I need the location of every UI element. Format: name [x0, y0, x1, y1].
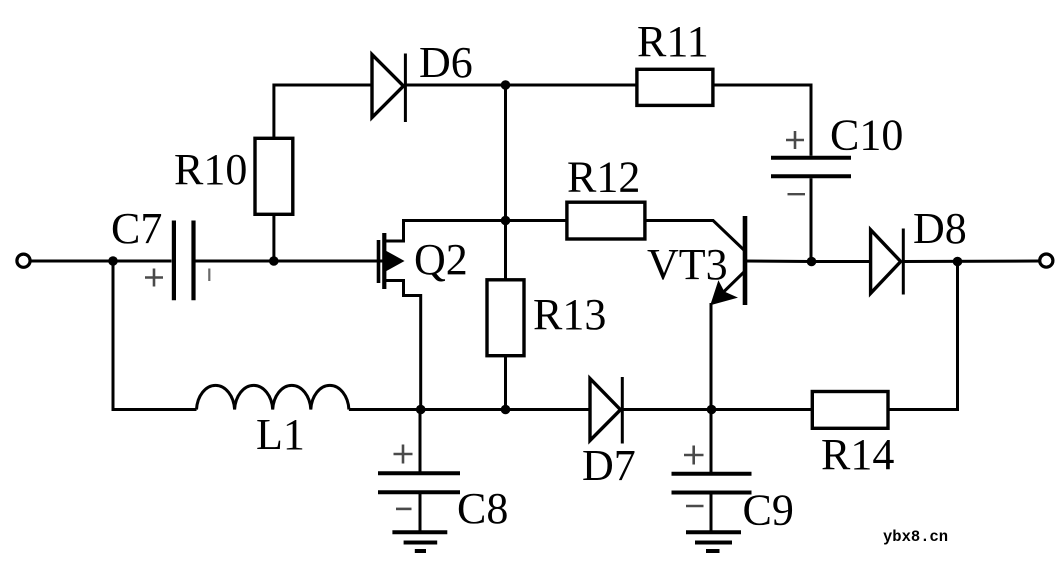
svg-text:R14: R14 [821, 430, 894, 479]
inductor L1 [197, 385, 349, 409]
wire D7 to R14 [622, 408, 812, 411]
capacitor C8 [378, 410, 460, 531]
diode D8 [871, 229, 904, 295]
wire node to R12 [506, 219, 567, 222]
mosfet Q2 [379, 221, 506, 410]
wire trunk vertical [504, 85, 507, 280]
node C8/Q2 source [416, 405, 426, 415]
resistor R13 [487, 280, 524, 356]
node VT3 emitter / C9 [707, 405, 717, 415]
node input/C7 [108, 256, 118, 266]
svg-text:VT3: VT3 [647, 240, 728, 289]
svg-text:ybx8.cn: ybx8.cn [883, 528, 948, 546]
resistor R12 [567, 202, 645, 239]
svg-text:D7: D7 [582, 441, 636, 490]
svg-text:Q2: Q2 [414, 235, 468, 284]
svg-text:R10: R10 [174, 145, 247, 194]
svg-text:C8: C8 [457, 484, 508, 533]
node R13 bottom [501, 405, 511, 415]
svg-text:C10: C10 [830, 111, 903, 160]
resistor R10 [255, 138, 293, 214]
wire input to C7 [31, 260, 172, 263]
svg-text:R12: R12 [567, 153, 640, 202]
capacitor C9 [672, 410, 752, 531]
node R10 bottom [269, 256, 279, 266]
input terminal [17, 254, 30, 267]
node Q2 drain / R12 [501, 216, 511, 226]
wire D6 to R11 [406, 84, 636, 87]
node D8 / R14 [953, 257, 963, 267]
node top trunk [501, 80, 511, 90]
wire R14 to output node [888, 262, 958, 410]
capacitor C7 [145, 221, 209, 301]
svg-text:C9: C9 [743, 486, 794, 535]
svg-text:D8: D8 [913, 204, 967, 253]
wire D8 to output [903, 260, 1039, 264]
wire C7 to Q2 gate [196, 260, 387, 263]
resistor R11 [637, 69, 713, 105]
svg-text:C7: C7 [111, 204, 162, 253]
wire to D8 [812, 260, 871, 263]
wire R12 to VT3 collector [645, 221, 745, 252]
wire left vertical drop [113, 261, 197, 410]
output terminal [1040, 254, 1053, 267]
svg-text:R11: R11 [637, 17, 709, 66]
svg-text:L1: L1 [256, 410, 305, 459]
ground below C9 [686, 532, 741, 551]
svg-text:R13: R13 [533, 290, 606, 339]
ground below C8 [392, 532, 447, 551]
node VT3 base / C10 / D8 [807, 257, 817, 267]
svg-text:D6: D6 [419, 38, 473, 87]
wire R13 bottom [504, 356, 507, 410]
wire bottom rail L1 to D7 [349, 408, 590, 411]
wire C10 to VT3 base node [810, 178, 813, 261]
wire R10 bottom to node [272, 214, 275, 261]
diode D6 [372, 54, 405, 123]
wire R11 to C10 [713, 85, 811, 156]
wire R10 top corner [274, 85, 372, 138]
diode D7 [590, 377, 622, 444]
transistor VT3 [711, 216, 812, 410]
resistor R14 [812, 392, 888, 429]
capacitor C10 [771, 131, 851, 194]
